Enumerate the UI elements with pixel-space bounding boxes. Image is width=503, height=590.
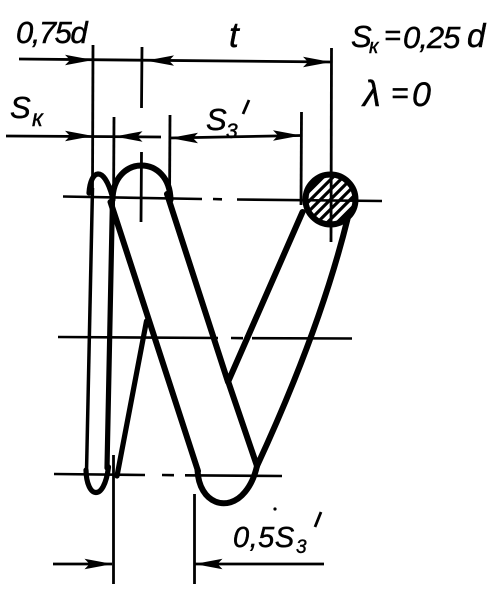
arrow right tip bottom at x=113 — [85, 559, 113, 569]
svg-text:3: 3 — [296, 537, 307, 558]
arrow right tip row1 at x=331 — [303, 57, 331, 67]
arrow left tip row1 at x=146 — [146, 55, 174, 65]
bottom dimension line 0,5S'3 — [53, 563, 112, 566]
wire cross-section circle — [306, 175, 356, 225]
extension line x=169.5 — [168, 115, 171, 205]
middle axis center line y=337 — [58, 337, 352, 339]
spring: Y stem (V vertex to bottom U) — [228, 381, 257, 466]
dimension shaft right of 0,5S'3 — [195, 563, 325, 566]
arrow right tip S'3 at x=301 — [273, 130, 301, 140]
spring: left loop bottom cap — [86, 467, 109, 493]
arrow left tip bottom at x=194.5 — [195, 559, 223, 569]
svg-text:S: S — [10, 90, 31, 125]
center line of big arc x=141.5 — [141, 47, 142, 222]
bottom axis center line y=475 — [54, 474, 282, 476]
extension line x=301 — [300, 112, 303, 205]
spring: left loop right side — [107, 198, 113, 468]
svg-text:0,75d: 0,75d — [16, 15, 89, 50]
svg-text:=: = — [384, 20, 401, 52]
arrow right tip Sk at x=93 — [65, 131, 93, 141]
bottom extension line x=113.5 — [112, 455, 115, 584]
svg-text:d: d — [467, 17, 487, 54]
arrow right tip row1 at x=93 — [65, 55, 93, 65]
bottom extension line x=194.5 — [193, 494, 196, 584]
spring: left loop top cap — [89, 174, 113, 197]
extension line x=93 top — [91, 45, 94, 188]
svg-text:3: 3 — [226, 120, 238, 143]
prime of bottom S'3 — [315, 512, 321, 527]
prime of S'3 — [243, 100, 249, 114]
svg-text:к: к — [32, 105, 44, 131]
spring: big top arc — [113, 166, 171, 201]
dimension line S'3 — [170, 136, 301, 139]
spring: bottom U cap — [198, 466, 258, 503]
arrow left tip Sk at x=114.5 — [115, 131, 143, 141]
svg-text:0,5S: 0,5S — [233, 522, 295, 554]
svg-text:0: 0 — [412, 76, 431, 114]
svg-text:к: к — [369, 36, 380, 58]
top axis center line y=197..201 — [63, 197, 382, 202]
spring: back coil line 1 — [117, 321, 147, 476]
svg-text:=: = — [391, 77, 409, 110]
spring: left loop left side + extension — [87, 188, 93, 472]
svg-text:t: t — [229, 16, 240, 55]
spring: front coil line 1 — [111, 202, 199, 471]
extension line x=114 — [112, 117, 115, 212]
svg-text:0,25: 0,25 — [403, 20, 461, 55]
spring: back V (big arc to wire-end circle) — [167, 194, 303, 382]
spring: front line circle to bottom U — [257, 219, 348, 466]
dimension line row1 (0,75d and t) — [19, 59, 331, 62]
speck — [273, 507, 276, 510]
svg-text:S: S — [206, 102, 227, 137]
hatching of circle — [307, 176, 353, 222]
extension / center line x=331 (t right, circle axis) — [330, 48, 333, 242]
arrow left tip S'3 at x=170 — [170, 133, 198, 143]
svg-text:λ: λ — [361, 73, 381, 114]
dimension line row2 Sk — [6, 136, 161, 137]
